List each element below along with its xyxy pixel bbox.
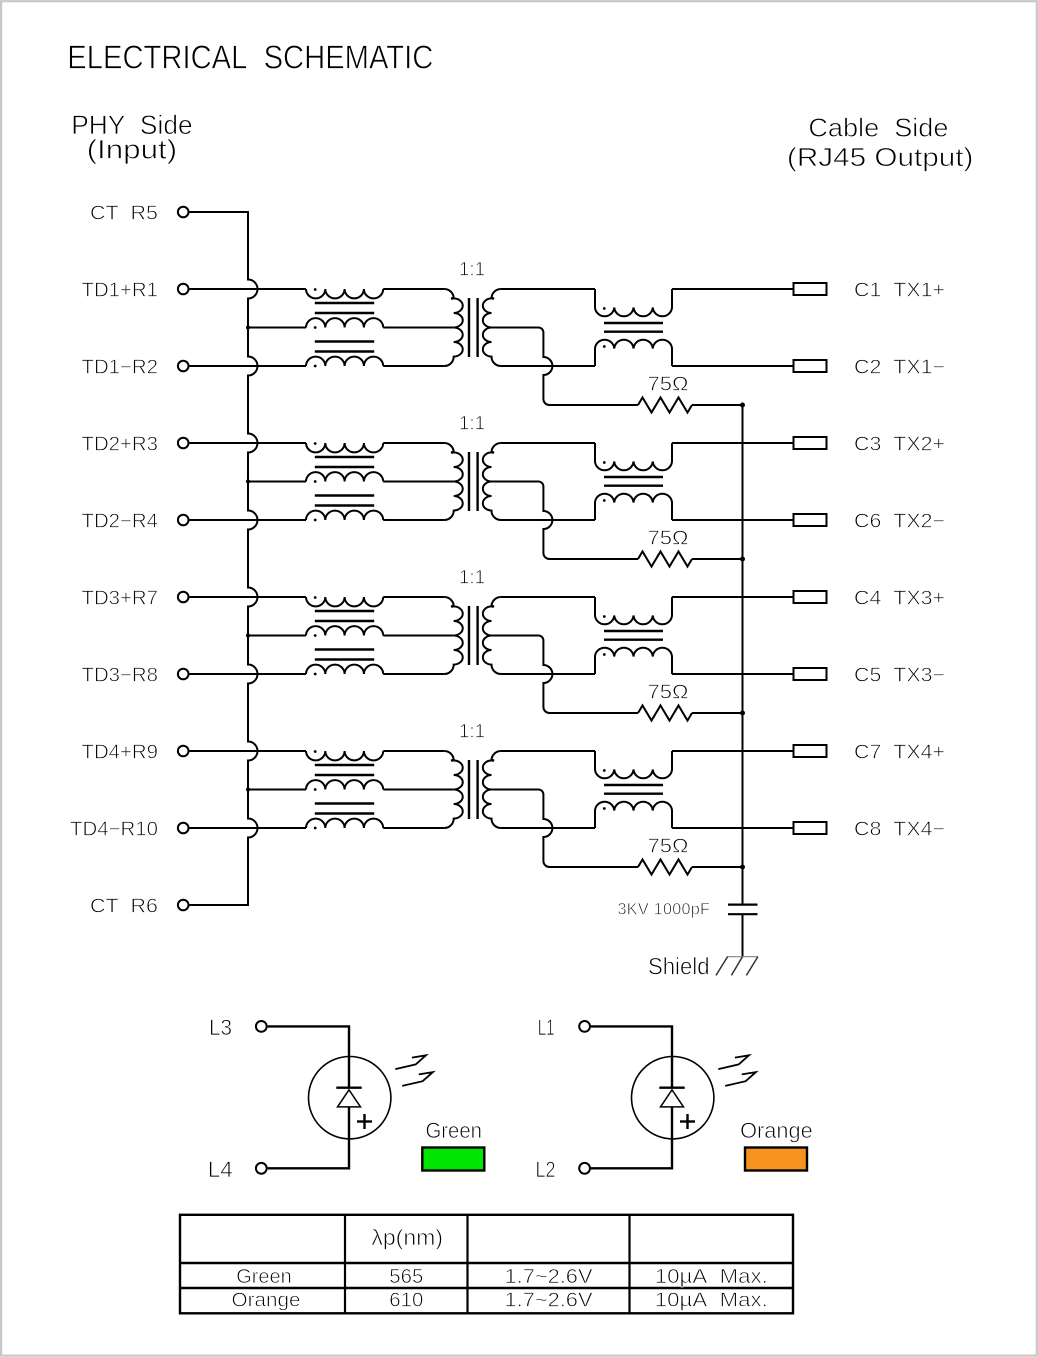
svg-text:1:1: 1:1: [459, 414, 485, 435]
LED Green diode cathode bar: [336, 1086, 361, 1088]
pin pad C8: [794, 822, 827, 834]
wire T1 secondary bottom to output choke: [501, 365, 595, 367]
wire choke CMC4 to transformer T4 (top): [383, 750, 444, 752]
choke CMC1 polarity dot C: [314, 365, 317, 368]
transformer T1 secondary winding: [483, 289, 501, 366]
wire CT bus R5 to R6 with hops over TD wires: [190, 212, 258, 905]
svg-text:CT R6: CT R6: [90, 895, 158, 917]
wire L3 to LED anode-top: [268, 1026, 349, 1087]
LED Green envelope circle: [309, 1057, 391, 1139]
svg-text:L4: L4: [208, 1157, 233, 1182]
svg-text:Orange: Orange: [232, 1288, 301, 1311]
pin L1: [579, 1021, 590, 1032]
choke CMC2 winding B (CT, scallops above): [306, 472, 383, 481]
junction dot resistor ch4 on rail: [740, 865, 745, 870]
wire LED bottom to L4: [268, 1107, 349, 1168]
resistor 75&#937; ch1: [638, 398, 692, 413]
junction dot resistor ch2 on rail: [740, 557, 745, 562]
wire TD2+R3 pin to choke CMC2: [190, 442, 307, 444]
transformer T2 secondary polarity dot: [492, 451, 495, 454]
svg-text:Orange: Orange: [740, 1118, 813, 1143]
pin TD2+R3: [178, 438, 189, 449]
svg-text:C1 TX1+: C1 TX1+: [854, 279, 945, 301]
svg-text:C8 TX4−: C8 TX4−: [854, 818, 945, 840]
choke CMC3 polarity dot A: [314, 596, 317, 599]
wire CT tap to choke CMC3 middle winding: [248, 635, 306, 637]
LED characteristics table frame: [180, 1215, 793, 1314]
choke CMC3 core lines upper pair: [315, 610, 374, 612]
wire T1 secondary top to output choke: [501, 288, 595, 290]
output choke OC2 core lines: [604, 476, 663, 478]
wire resistor ch3 to shield rail: [692, 712, 743, 714]
svg-text:λp(nm): λp(nm): [371, 1225, 443, 1250]
wire L1 to LED anode-top: [591, 1026, 672, 1087]
svg-text:565: 565: [389, 1265, 423, 1288]
output choke OC2 winding B (scallops above): [595, 494, 672, 520]
junction dot CT tap ch2: [246, 480, 250, 484]
choke CMC2 polarity dot C: [314, 519, 317, 522]
choke CMC4 polarity dot B: [314, 788, 317, 791]
svg-text:1:1: 1:1: [459, 722, 485, 743]
LED Green plus sign (anode): [357, 1120, 372, 1122]
wire choke CMC2 to transformer T2 (center tap): [383, 481, 454, 483]
svg-text:TD4+R9: TD4+R9: [82, 741, 159, 763]
LED Green light arrow 1: [395, 1055, 426, 1069]
choke CMC1 polarity dot A: [314, 288, 317, 291]
choke CMC2 winding C (TD&#8722;, scallops above): [306, 511, 383, 520]
output choke OC1 polarity dot B: [603, 345, 606, 348]
transformer T4 primary winding: [444, 751, 462, 828]
wire choke CMC4 to transformer T4 (bottom): [383, 827, 444, 829]
svg-text:C4 TX3+: C4 TX3+: [854, 587, 945, 609]
wire shield rail (common of 75 ohm resistors): [742, 405, 744, 905]
wire output choke to pin C2: [672, 365, 794, 367]
wire T2 secondary center tap to resistor (hops over bottom wire): [492, 482, 639, 560]
output choke OC2 polarity dot A: [603, 461, 606, 464]
pin L4: [256, 1163, 267, 1174]
wire TD4&#8722;R10 pin to choke CMC4: [190, 827, 307, 829]
junction dot CT tap ch1: [246, 326, 250, 330]
junction dot CT tap ch3: [246, 634, 250, 638]
svg-text:Green: Green: [425, 1118, 482, 1143]
wire choke CMC3 to transformer T3 (top): [383, 596, 444, 598]
wire output choke to pin C4: [672, 596, 794, 598]
svg-text:75Ω: 75Ω: [648, 528, 689, 550]
wire CT tap to choke CMC2 middle winding: [248, 481, 306, 483]
svg-text:C2 TX1−: C2 TX1−: [854, 356, 945, 378]
LED Orange envelope circle: [632, 1057, 714, 1139]
choke CMC3 winding C (TD&#8722;, scallops above): [306, 665, 383, 674]
choke CMC3 polarity dot B: [314, 634, 317, 637]
svg-text:75Ω: 75Ω: [648, 836, 689, 858]
transformer T1 primary polarity dot: [451, 297, 454, 300]
svg-text:610: 610: [389, 1288, 423, 1311]
transformer T2 secondary winding: [483, 443, 501, 520]
pin pad C3: [794, 437, 827, 449]
wire T3 secondary top to output choke: [501, 596, 595, 598]
wire output choke to pin C6: [672, 519, 794, 521]
svg-text:(Input): (Input): [87, 135, 178, 165]
svg-text:Shield: Shield: [648, 954, 710, 981]
transformer T1 secondary polarity dot: [492, 297, 495, 300]
transformer T3 secondary winding: [483, 597, 501, 674]
output choke OC4 polarity dot B: [603, 807, 606, 810]
LED Orange diode triangle: [661, 1090, 684, 1107]
svg-text:C3 TX2+: C3 TX2+: [854, 433, 945, 455]
transformer T3 core: [468, 606, 470, 665]
output choke OC4 winding A (scallops below): [595, 751, 672, 778]
wire output choke to pin C8: [672, 827, 794, 829]
svg-text:L3: L3: [209, 1015, 232, 1040]
choke CMC3 polarity dot C: [314, 673, 317, 676]
transformer T1 core: [468, 298, 470, 357]
svg-text:L1: L1: [538, 1015, 555, 1040]
output choke OC3 polarity dot A: [603, 615, 606, 618]
pin TD3&#8722;R8: [178, 669, 189, 680]
capacitor 3KV 1000pF: [728, 903, 758, 905]
transformer T4 secondary winding: [483, 751, 501, 828]
wire TD2&#8722;R4 pin to choke CMC2: [190, 519, 307, 521]
pin L3: [256, 1021, 267, 1032]
svg-text:75Ω: 75Ω: [648, 682, 689, 704]
Orange color swatch: [745, 1148, 807, 1171]
choke CMC1 winding A (TD+, scallops below): [306, 289, 383, 298]
choke CMC1 core lines upper pair: [315, 302, 374, 304]
transformer T4 primary polarity dot: [451, 759, 454, 762]
transformer T3 secondary polarity dot: [492, 605, 495, 608]
choke CMC4 winding C (TD&#8722;, scallops above): [306, 819, 383, 828]
output choke OC1 core lines: [604, 322, 663, 324]
output choke OC3 polarity dot B: [603, 653, 606, 656]
svg-text:10µA Max.: 10µA Max.: [655, 1288, 768, 1311]
pin TD4+R9: [178, 746, 189, 757]
transformer T1 primary winding: [444, 289, 462, 366]
choke CMC4 winding B (CT, scallops above): [306, 780, 383, 789]
wire choke CMC2 to transformer T2 (bottom): [383, 519, 444, 521]
choke CMC1 winding B (CT, scallops above): [306, 318, 383, 327]
wire output choke to pin C1: [672, 288, 794, 290]
svg-text:ELECTRICAL SCHEMATIC: ELECTRICAL SCHEMATIC: [67, 40, 433, 77]
pin TD1+R1: [178, 284, 189, 295]
svg-text:1:1: 1:1: [459, 568, 485, 589]
wire choke CMC2 to transformer T2 (top): [383, 442, 444, 444]
resistor 75&#937; ch4: [638, 860, 692, 875]
pin pad C7: [794, 745, 827, 757]
wire choke CMC1 to transformer T1 (center tap): [383, 327, 454, 329]
wire LED bottom to L2: [591, 1107, 672, 1168]
wire choke CMC1 to transformer T1 (top): [383, 288, 444, 290]
LED Green diode triangle: [338, 1090, 361, 1107]
junction dot resistor ch3 on rail: [740, 711, 745, 716]
svg-text:TD3+R7: TD3+R7: [82, 587, 159, 609]
LED Orange plus sign (anode): [680, 1120, 695, 1122]
svg-text:CT R5: CT R5: [90, 202, 158, 224]
pin pad C4: [794, 591, 827, 603]
Green color swatch: [422, 1148, 484, 1171]
svg-text:C6 TX2−: C6 TX2−: [854, 510, 945, 532]
output choke OC2 winding A (scallops below): [595, 443, 672, 470]
wire TD4+R9 pin to choke CMC4: [190, 750, 307, 752]
wire T4 secondary center tap to resistor (hops over bottom wire): [492, 790, 639, 868]
choke CMC4 polarity dot A: [314, 750, 317, 753]
choke CMC4 winding A (TD+, scallops below): [306, 751, 383, 760]
output choke OC3 winding B (scallops above): [595, 648, 672, 674]
wire resistor ch1 to shield rail: [692, 404, 743, 406]
transformer T2 primary winding: [444, 443, 462, 520]
pin pad C6: [794, 514, 827, 526]
pin TD2&#8722;R4: [178, 515, 189, 526]
choke CMC3 winding B (CT, scallops above): [306, 626, 383, 635]
svg-text:C7 TX4+: C7 TX4+: [854, 741, 945, 763]
svg-text:10µA Max.: 10µA Max.: [655, 1265, 768, 1288]
transformer T4 core: [468, 760, 470, 819]
LED Green light arrow 2: [402, 1072, 433, 1086]
wire T4 secondary bottom to output choke: [501, 827, 595, 829]
wire choke CMC3 to transformer T3 (bottom): [383, 673, 444, 675]
wire T3 secondary center tap to resistor (hops over bottom wire): [492, 636, 639, 714]
wire T1 secondary center tap to resistor (hops over bottom wire): [492, 328, 639, 406]
output choke OC4 winding B (scallops above): [595, 802, 672, 828]
wire TD1+R1 pin to choke CMC1: [190, 288, 307, 290]
choke CMC2 core lines upper pair: [315, 456, 374, 458]
wire T2 secondary bottom to output choke: [501, 519, 595, 521]
wire TD3+R7 pin to choke CMC3: [190, 596, 307, 598]
output choke OC1 polarity dot A: [603, 307, 606, 310]
transformer T2 primary polarity dot: [451, 451, 454, 454]
wire CT tap to choke CMC1 middle winding: [248, 327, 306, 329]
pin TD1&#8722;R2: [178, 361, 189, 372]
transformer T3 primary winding: [444, 597, 462, 674]
wire TD1&#8722;R2 pin to choke CMC1: [190, 365, 307, 367]
choke CMC3 winding A (TD+, scallops below): [306, 597, 383, 606]
wire output choke to pin C3: [672, 442, 794, 444]
choke CMC2 core lines lower pair: [315, 494, 374, 496]
output choke OC3 winding A (scallops below): [595, 597, 672, 624]
wire resistor ch2 to shield rail: [692, 558, 743, 560]
pin TD3+R7: [178, 592, 189, 603]
LED Orange light arrow 1: [718, 1055, 749, 1069]
output choke OC4 core lines: [604, 784, 663, 786]
wire resistor ch4 to shield rail: [692, 866, 743, 868]
wire TD3&#8722;R8 pin to choke CMC3: [190, 673, 307, 675]
wire T4 secondary top to output choke: [501, 750, 595, 752]
wire CT tap to choke CMC4 middle winding: [248, 789, 306, 791]
pin L2: [579, 1163, 590, 1174]
pin CT R5: [178, 207, 189, 218]
pin pad C1: [794, 283, 827, 295]
choke CMC4 polarity dot C: [314, 827, 317, 830]
choke CMC3 core lines lower pair: [315, 648, 374, 650]
svg-text:1.7~2.6V: 1.7~2.6V: [505, 1265, 593, 1288]
svg-text:Cable Side: Cable Side: [808, 113, 948, 143]
output choke OC1 winding B (scallops above): [595, 340, 672, 366]
resistor 75&#937; ch3: [638, 706, 692, 721]
svg-text:TD4−R10: TD4−R10: [70, 818, 158, 840]
LED Orange diode cathode bar: [659, 1086, 684, 1088]
wire output choke to pin C7: [672, 750, 794, 752]
pin TD4&#8722;R10: [178, 823, 189, 834]
wire choke CMC3 to transformer T3 (center tap): [383, 635, 454, 637]
svg-text:TD1−R2: TD1−R2: [82, 356, 159, 378]
choke CMC2 polarity dot B: [314, 480, 317, 483]
choke CMC2 winding A (TD+, scallops below): [306, 443, 383, 452]
wire output choke to pin C5: [672, 673, 794, 675]
transformer T2 core: [468, 452, 470, 511]
svg-text:TD2+R3: TD2+R3: [82, 433, 159, 455]
svg-text:1:1: 1:1: [459, 260, 485, 281]
wire choke CMC4 to transformer T4 (center tap): [383, 789, 454, 791]
svg-text:3KV 1000pF: 3KV 1000pF: [618, 899, 711, 918]
output choke OC2 polarity dot B: [603, 499, 606, 502]
svg-text:Green: Green: [236, 1265, 292, 1288]
choke CMC4 core lines upper pair: [315, 764, 374, 766]
svg-text:C5 TX3−: C5 TX3−: [854, 664, 945, 686]
wire capacitor to shield ground: [742, 914, 744, 956]
svg-text:1.7~2.6V: 1.7~2.6V: [505, 1288, 593, 1311]
wire choke CMC1 to transformer T1 (bottom): [383, 365, 444, 367]
transformer T4 secondary polarity dot: [492, 759, 495, 762]
pin pad C5: [794, 668, 827, 680]
svg-text:TD3−R8: TD3−R8: [82, 664, 159, 686]
choke CMC1 polarity dot B: [314, 326, 317, 329]
junction dot resistor ch1 on rail: [740, 403, 745, 408]
transformer T3 primary polarity dot: [451, 605, 454, 608]
pin CT R6: [178, 900, 189, 911]
LED Orange light arrow 2: [725, 1072, 756, 1086]
output choke OC1 winding A (scallops below): [595, 289, 672, 316]
svg-text:L2: L2: [536, 1157, 556, 1182]
ground (chassis/shield) symbol: [727, 956, 758, 958]
choke CMC1 winding C (TD&#8722;, scallops above): [306, 357, 383, 366]
output choke OC4 polarity dot A: [603, 769, 606, 772]
svg-text:TD1+R1: TD1+R1: [82, 279, 159, 301]
wire T2 secondary top to output choke: [501, 442, 595, 444]
choke CMC2 polarity dot A: [314, 442, 317, 445]
choke CMC4 core lines lower pair: [315, 802, 374, 804]
svg-text:(RJ45 Output): (RJ45 Output): [787, 142, 974, 172]
pin pad C2: [794, 360, 827, 372]
svg-text:TD2−R4: TD2−R4: [82, 510, 159, 532]
output choke OC3 core lines: [604, 630, 663, 632]
junction dot CT tap ch4: [246, 788, 250, 792]
choke CMC1 core lines lower pair: [315, 340, 374, 342]
wire T3 secondary bottom to output choke: [501, 673, 595, 675]
svg-text:75Ω: 75Ω: [648, 374, 689, 396]
resistor 75&#937; ch2: [638, 552, 692, 567]
